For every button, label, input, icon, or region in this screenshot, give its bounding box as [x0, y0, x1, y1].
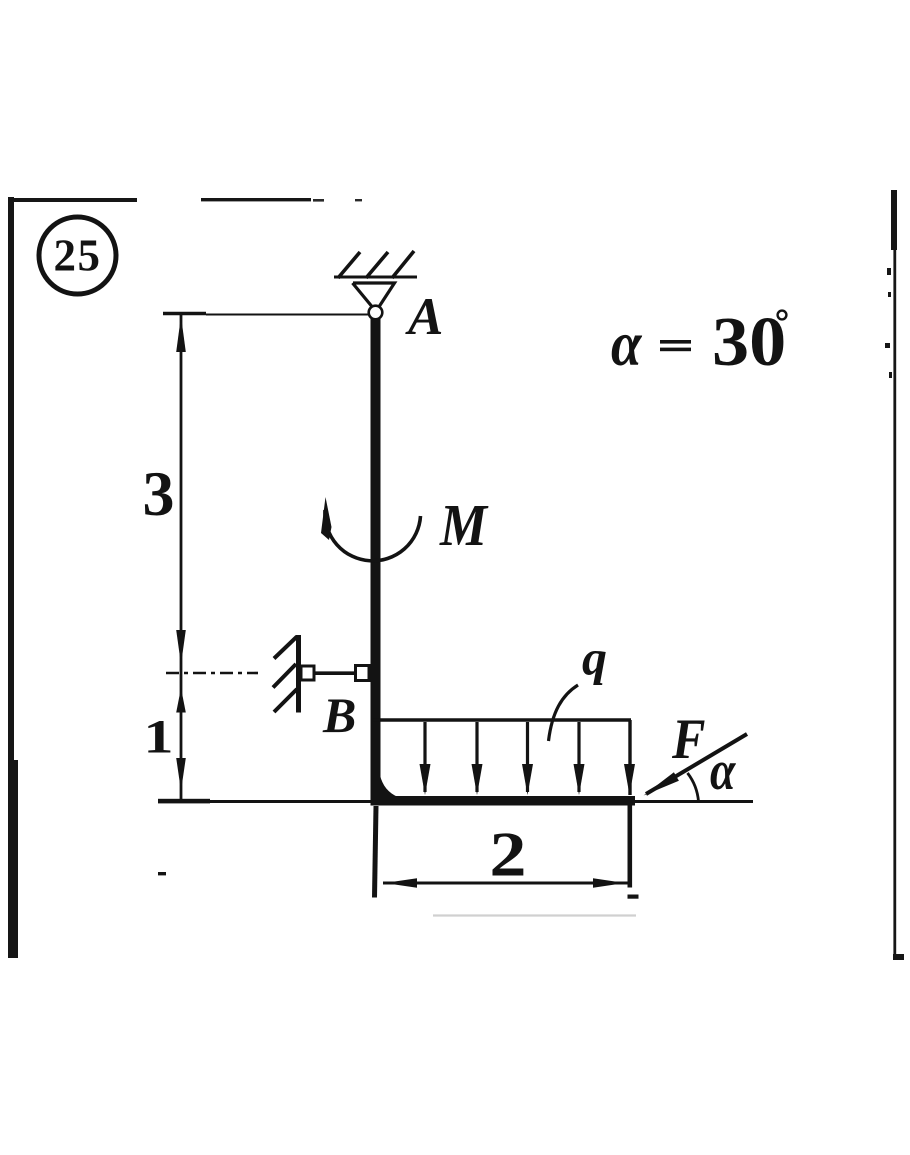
svg-text:25: 25	[54, 231, 102, 281]
svg-text:α: α	[710, 740, 736, 802]
svg-text:1: 1	[143, 710, 173, 763]
svg-text:2: 2	[489, 820, 526, 889]
svg-text:A: A	[405, 288, 443, 346]
svg-text:q: q	[582, 630, 607, 686]
svg-text:α: α	[611, 308, 642, 379]
svg-text:M: M	[439, 492, 489, 558]
svg-text:30: 30	[712, 303, 786, 381]
svg-text:B: B	[322, 687, 356, 743]
svg-text:3: 3	[143, 458, 175, 529]
svg-text:F: F	[671, 707, 705, 771]
